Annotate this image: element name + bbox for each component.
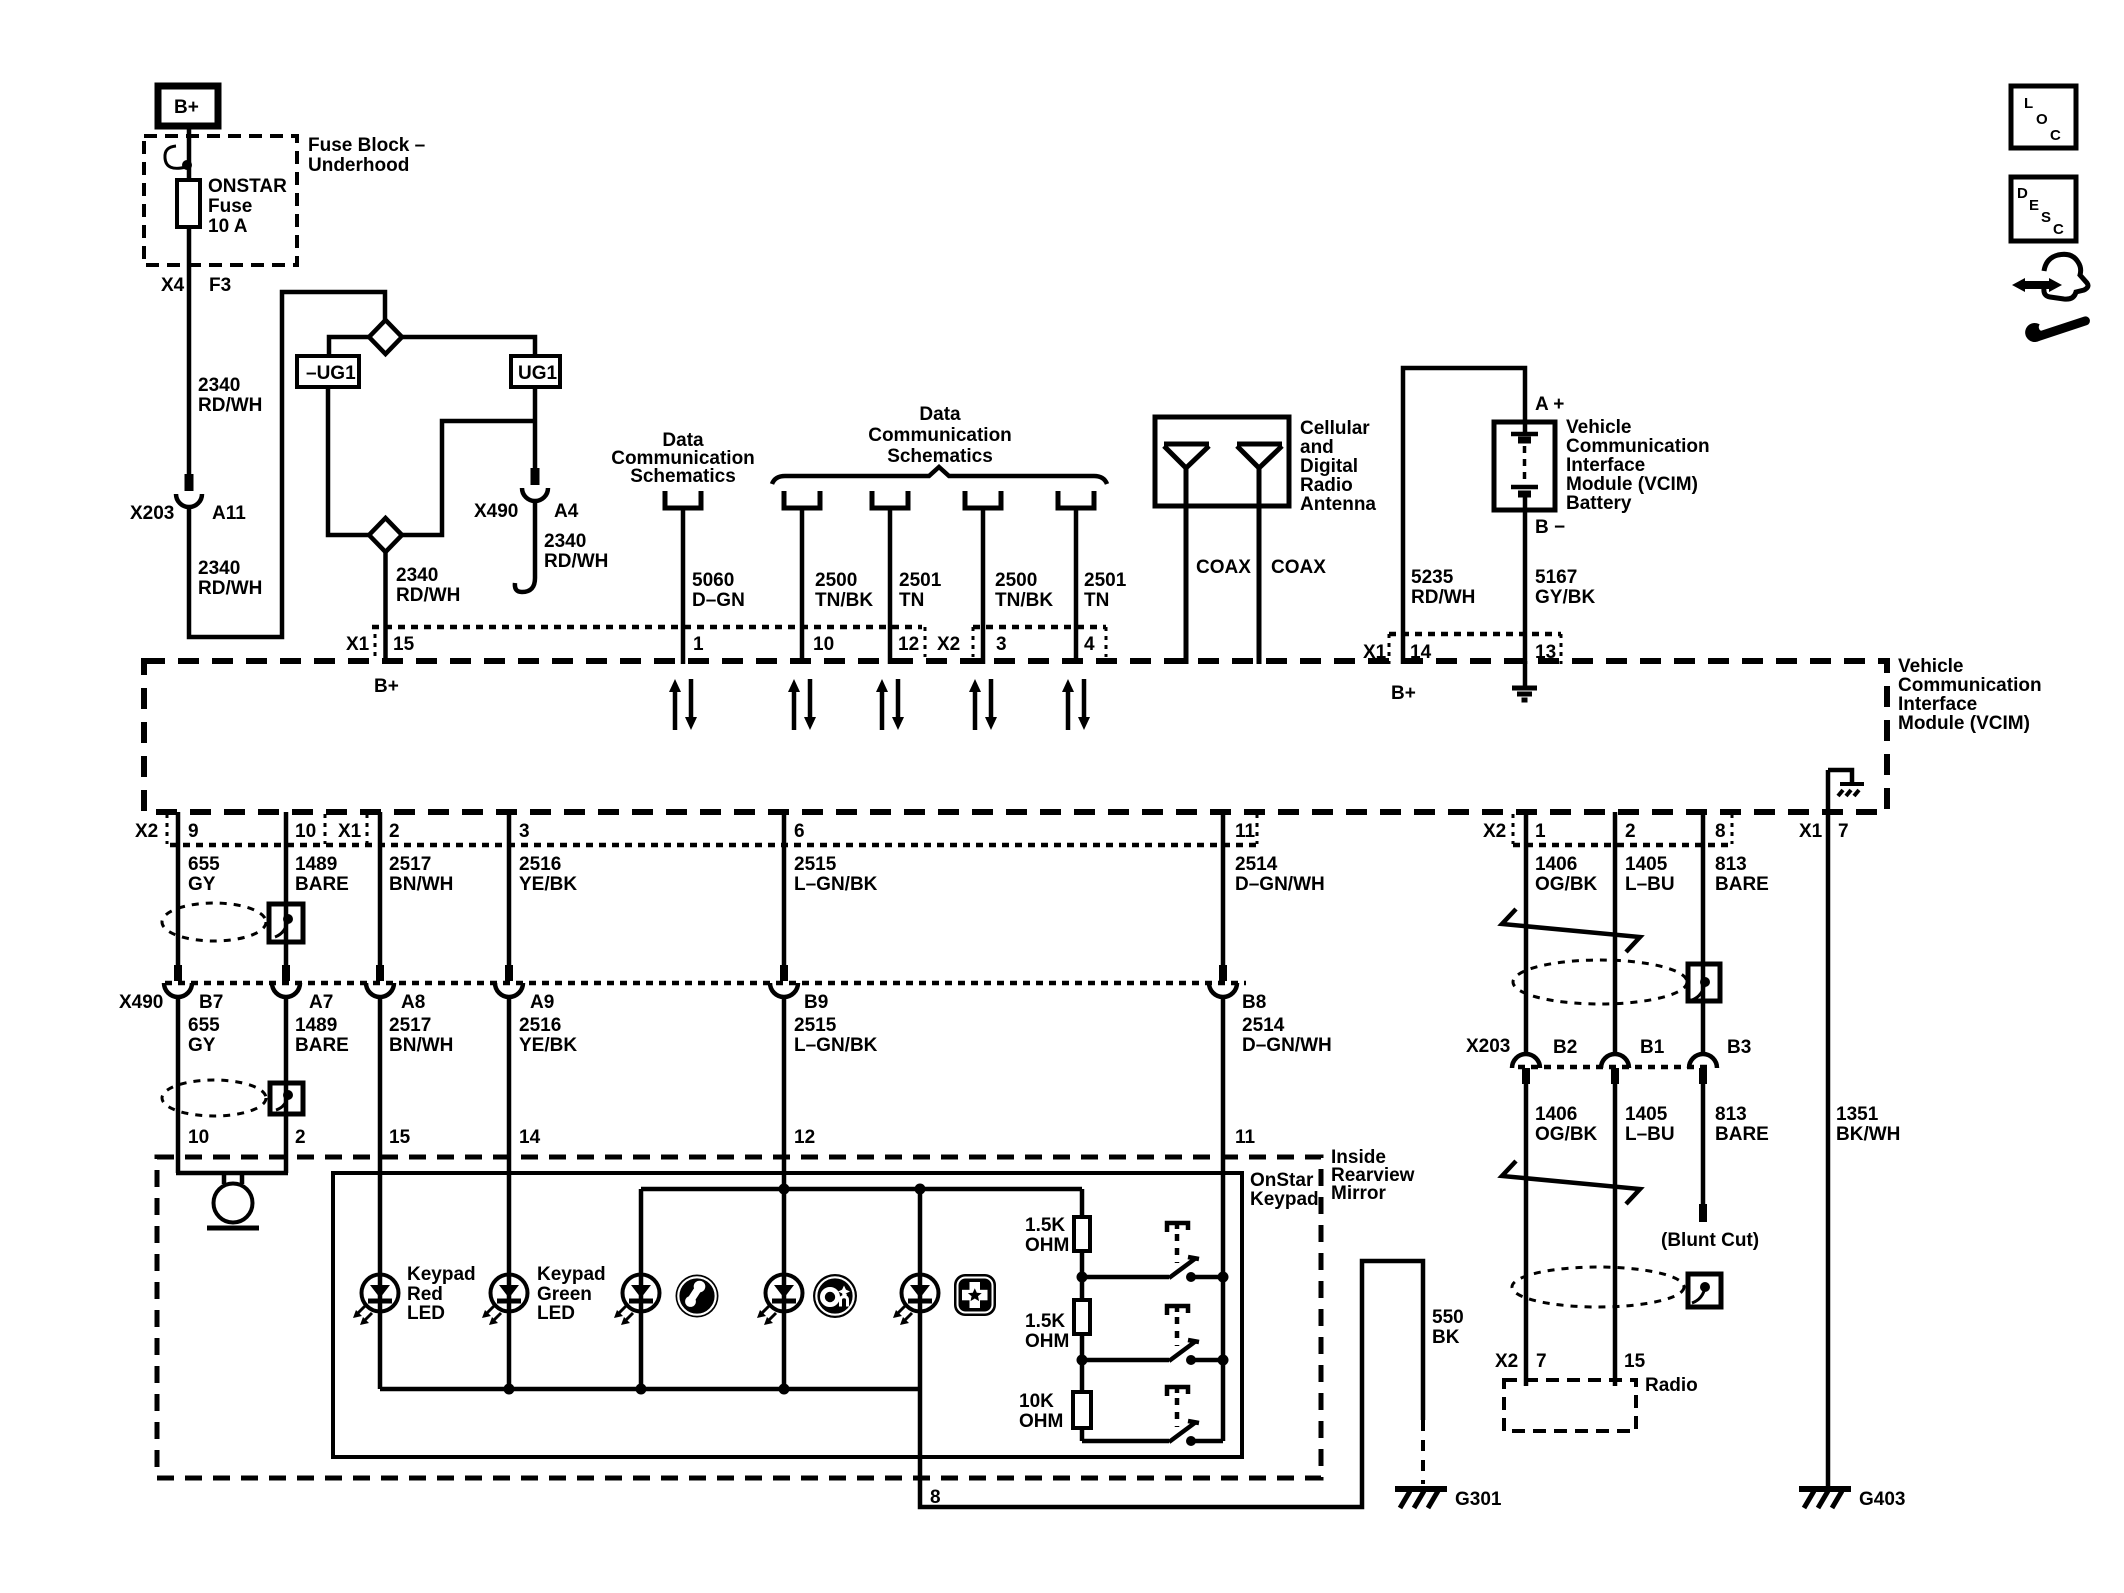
svg-text:10 A: 10 A [208,216,248,237]
X490 pin B8 [1219,965,1227,981]
coax wire 2 [1257,466,1262,664]
svg-text:Mirror: Mirror [1331,1183,1387,1204]
svg-text:7: 7 [1536,1351,1547,1372]
svg-text:813: 813 [1715,1104,1747,1125]
switch onstar (row2) [1082,1306,1223,1365]
svg-text:12: 12 [794,1127,815,1148]
node B+ (battery feed) [158,86,218,126]
svg-text:GY: GY [188,1035,216,1056]
svg-text:OG/BK: OG/BK [1535,874,1598,895]
svg-text:A11: A11 [212,503,246,524]
svg-text:LED: LED [407,1303,445,1324]
svg-text:L–BU: L–BU [1625,874,1675,895]
phone button icon [676,1275,719,1318]
VCIM battery box [1494,422,1555,510]
DESC legend box [2011,177,2076,241]
off-page connector wire 2501 [872,491,908,508]
anode bus wire [641,1187,1082,1192]
svg-text:UG1: UG1 [518,363,558,384]
bidirectional arrows pin 12 [876,679,904,730]
svg-text:B2: B2 [1553,1037,1577,1058]
svg-text:11: 11 [1235,1127,1256,1148]
svg-text:5167: 5167 [1535,567,1577,588]
svg-text:D–GN/WH: D–GN/WH [1242,1035,1332,1056]
junction LED5/bus [915,1184,926,1195]
svg-text:RD/WH: RD/WH [198,395,262,416]
svg-text:Radio: Radio [1300,475,1353,496]
svg-text:1.5K: 1.5K [1025,1215,1065,1236]
LOC legend box [2011,86,2076,148]
svg-text:655: 655 [188,854,220,875]
X203 pin B1 [1611,1068,1619,1084]
wire 550 BK to G301 [1421,1420,1425,1484]
svg-text:BARE: BARE [1715,1124,1769,1145]
connector X490 pin A4 [522,488,548,501]
wire 2514 D-GN/WH (lower) [1221,995,1226,1441]
svg-text:Keypad: Keypad [537,1264,606,1285]
svg-text:1: 1 [1535,821,1546,842]
svg-text:OG/BK: OG/BK [1535,1124,1598,1145]
svg-text:G301: G301 [1455,1489,1502,1510]
svg-text:RD/WH: RD/WH [1411,587,1475,608]
wire 2514 D-GN/WH (upper) [1221,812,1226,968]
svg-text:Vehicle: Vehicle [1898,656,1964,677]
svg-text:S: S [2041,209,2051,226]
wire 2516 YE/BK (upper) [507,812,512,968]
svg-text:D–GN: D–GN [692,590,745,611]
wire 2515 L-GN/BK (lower) [782,995,787,1275]
wire 2340 RD/WH pigtail [515,499,535,592]
phone call LED [614,1275,660,1326]
svg-text:2517: 2517 [389,1015,431,1036]
switch phone (row1) [1082,1223,1223,1282]
microphone [176,1173,288,1184]
wire 813 BARE (upper) [1701,812,1706,1054]
svg-text:BARE: BARE [295,1035,349,1056]
inside rearview mirror dashed box [157,1157,1321,1478]
wire bus to LED3 [639,1189,644,1275]
splice diamond upper [369,320,402,354]
wire 813 BARE (lower, blunt cut) [1701,1084,1706,1206]
wire 5060 D-GN to VCIM pin 1 [681,510,686,664]
svg-text:Communication: Communication [868,425,1012,446]
wire 1489 BARE (upper) [284,812,289,968]
svg-text:1406: 1406 [1535,1104,1577,1125]
shield wrap ellipse upper [162,903,266,941]
svg-text:Underhood: Underhood [308,155,409,176]
svg-text:X1: X1 [338,821,362,842]
battery cell symbol [1511,424,1538,434]
ground G301 [1395,1489,1447,1508]
wire R1 to row1 [1080,1251,1085,1300]
svg-text:1.5K: 1.5K [1025,1311,1065,1332]
shield wrap ellipse right upper [1513,960,1687,1004]
X490 pin A8 [376,965,384,981]
wire 1406 OG/BK (upper) [1524,812,1529,1054]
fusible link UG1 [511,356,560,387]
svg-text:1406: 1406 [1535,854,1577,875]
svg-text:2340: 2340 [198,558,240,579]
svg-text:1405: 1405 [1625,1104,1668,1125]
svg-text:2: 2 [1625,821,1636,842]
bidirectional arrows pin 1 [669,679,697,730]
internal ground at pin 13 [1523,661,1528,686]
svg-text:Keypad: Keypad [1250,1189,1319,1210]
svg-text:B −: B − [1535,517,1565,538]
svg-text:(Blunt Cut): (Blunt Cut) [1661,1230,1759,1251]
svg-text:2515: 2515 [794,1015,837,1036]
switch emergency (row3) [1082,1387,1223,1446]
svg-text:13: 13 [1535,642,1556,663]
pin dotted row under VCIM [170,843,1257,848]
crossover marker lower [1502,1161,1640,1204]
svg-text:E: E [2029,197,2039,214]
wire 655 GY (upper) [176,812,181,968]
wire 1406 OG/BK (lower) [1524,1084,1529,1386]
svg-text:TN: TN [1084,590,1109,611]
svg-text:2514: 2514 [1235,854,1278,875]
crossover marker upper [1502,909,1640,952]
fuse F3 ONSTAR 10 A [177,180,200,227]
svg-text:X2: X2 [1495,1351,1518,1372]
svg-text:LED: LED [537,1303,575,1324]
svg-text:12: 12 [898,634,919,655]
drain splice box right upper [1688,964,1720,1001]
emergency LED [893,1275,939,1326]
svg-text:OHM: OHM [1019,1411,1063,1432]
wire keypad pin 8 to ground run [920,1261,1423,1507]
svg-text:L–BU: L–BU [1625,1124,1675,1145]
svg-text:L–GN/BK: L–GN/BK [794,874,878,895]
svg-text:10: 10 [295,821,316,842]
antenna element 2 [1237,444,1282,468]
svg-text:655: 655 [188,1015,220,1036]
wire 2517 BN/WH (upper) [378,812,383,968]
svg-text:2: 2 [389,821,400,842]
svg-text:1489: 1489 [295,1015,337,1036]
resistor R2 1.5K OHM [1074,1300,1090,1334]
svg-text:A +: A + [1535,394,1564,415]
X203 pin B2 [1522,1068,1530,1084]
svg-text:TN: TN [899,590,924,611]
svg-text:2515: 2515 [794,854,837,875]
resistor bus [1080,1189,1085,1217]
svg-text:COAX: COAX [1196,557,1251,578]
svg-text:A4: A4 [554,501,579,522]
svg-text:O: O [2036,111,2048,128]
svg-text:2340: 2340 [198,375,240,396]
svg-text:D–GN/WH: D–GN/WH [1235,874,1325,895]
svg-text:5060: 5060 [692,570,734,591]
svg-text:RD/WH: RD/WH [544,551,608,572]
svg-text:X2: X2 [937,634,960,655]
svg-text:10: 10 [188,1127,209,1148]
svg-text:Keypad: Keypad [407,1264,476,1285]
svg-text:3: 3 [996,634,1007,655]
svg-text:L–GN/BK: L–GN/BK [794,1035,878,1056]
svg-text:A7: A7 [309,992,333,1013]
wire 2340 RD/WH from A11 around to splice [189,292,385,637]
wire 2516 YE/BK (lower) [507,995,512,1275]
svg-text:Interface: Interface [1566,455,1645,476]
svg-text:BARE: BARE [295,874,349,895]
ground G403 [1799,1489,1851,1508]
svg-text:5235: 5235 [1411,567,1454,588]
svg-text:X203: X203 [1466,1036,1510,1057]
keypad red LED [353,1275,399,1326]
svg-text:TN/BK: TN/BK [995,590,1053,611]
onstar LED [757,1275,803,1326]
wire 5235 RD/WH B+ loop to battery A+ [1403,368,1525,664]
off-page connector wire 5060 [665,491,701,508]
wire 1351 BK/WH internal ground [1828,770,1852,782]
svg-text:ONSTAR: ONSTAR [208,176,287,197]
wire bus to LED5 [918,1189,923,1275]
svg-text:YE/BK: YE/BK [519,874,577,895]
emergency button icon [954,1274,996,1316]
svg-text:Red: Red [407,1284,443,1305]
svg-text:6: 6 [794,821,805,842]
svg-text:C: C [2050,127,2061,144]
brace over data wires [772,467,1107,484]
svg-text:2500: 2500 [815,570,857,591]
svg-text:Module (VCIM): Module (VCIM) [1898,713,2030,734]
wire 2501 TN to VCIM pin 4 [1074,510,1079,664]
connector X490 row [165,981,1246,986]
shield wrap ellipse lower [162,1080,266,1116]
svg-text:–UG1: –UG1 [306,363,356,384]
wire 2500 TN/BK to VCIM pin 3 [981,510,986,664]
wire B+ to fuse [187,126,192,180]
splice diamond lower [369,518,402,552]
svg-text:YE/BK: YE/BK [519,1035,577,1056]
svg-text:2340: 2340 [396,565,438,586]
wire splice to UG1 [402,337,535,356]
svg-text:2516: 2516 [519,1015,561,1036]
junction LED2 [504,1384,515,1395]
svg-text:8: 8 [1715,821,1726,842]
cathode bus wire [380,1387,920,1392]
svg-text:GY/BK: GY/BK [1535,587,1595,608]
svg-text:Cellular: Cellular [1300,418,1370,439]
svg-text:OHM: OHM [1025,1331,1069,1352]
svg-text:B8: B8 [1242,992,1266,1013]
svg-text:15: 15 [389,1127,411,1148]
svg-text:A8: A8 [401,992,425,1013]
svg-text:Schematics: Schematics [887,446,993,467]
antenna element 1 [1164,444,1209,468]
svg-text:BN/WH: BN/WH [389,874,453,895]
wire UG1 branch junction [533,387,538,421]
svg-text:1405: 1405 [1625,854,1668,875]
svg-text:Fuse: Fuse [208,196,252,217]
bidirectional arrows pin 3 [969,679,997,730]
svg-text:14: 14 [1410,642,1432,663]
svg-text:COAX: COAX [1271,557,1326,578]
wire 2517 BN/WH (lower) [378,995,383,1275]
wire 2340 RD/WH splice to VCIM pin 15 [383,552,388,664]
svg-text:A9: A9 [530,992,554,1013]
svg-text:Communication: Communication [1566,436,1710,457]
svg-text:BARE: BARE [1715,874,1769,895]
svg-text:8: 8 [930,1487,941,1508]
svg-text:X203: X203 [130,503,174,524]
svg-text:Data: Data [919,404,961,425]
svg-text:and: and [1300,437,1334,458]
off-page connector wire 2500b [965,491,1001,508]
svg-text:GY: GY [188,874,216,895]
svg-text:Module (VCIM): Module (VCIM) [1566,474,1698,495]
bidirectional arrows pin 10 [788,679,816,730]
svg-text:2500: 2500 [995,570,1037,591]
svg-text:4: 4 [1084,634,1095,655]
svg-text:2501: 2501 [899,570,942,591]
svg-text:2: 2 [295,1127,306,1148]
svg-text:X490: X490 [474,501,518,522]
svg-text:X1: X1 [1363,642,1387,663]
wire 1405 L-BU (upper) [1613,812,1618,1054]
svg-text:X4: X4 [161,275,185,296]
svg-text:B9: B9 [804,992,828,1013]
fusible link -UG1 [297,356,359,387]
svg-text:10K: 10K [1019,1391,1054,1412]
svg-text:1351: 1351 [1836,1104,1879,1125]
junction LED4 [779,1384,790,1395]
off-page connector wire 2500 [784,491,820,508]
svg-text:Antenna: Antenna [1300,494,1376,515]
svg-text:OHM: OHM [1025,1235,1069,1256]
svg-text:Battery: Battery [1566,493,1632,514]
junction 2515/bus [779,1184,790,1195]
svg-text:Green: Green [537,1284,592,1305]
svg-text:BK/WH: BK/WH [1836,1124,1900,1145]
drain splice box right lower [1688,1274,1721,1307]
svg-text:B+: B+ [374,676,399,697]
svg-text:Communication: Communication [1898,675,2042,696]
svg-text:7: 7 [1838,821,1849,842]
drain splice box upper [269,904,303,942]
onstar button icon [813,1274,857,1318]
connector row X1/X2 top of VCIM [372,625,922,630]
wire 2500 TN/BK to VCIM pin 10 [800,510,805,664]
X490 pin A9 [505,965,513,981]
wire 1351 BK/WH to G403 [1826,770,1831,1486]
wire -UG1 to lower splice [328,387,369,535]
keypad green LED [482,1275,528,1326]
wire 1405 L-BU (lower) [1613,1084,1618,1386]
svg-text:X2: X2 [135,821,158,842]
connector X203 row [1518,1065,1712,1070]
onstar keypad box [333,1173,1242,1457]
wire R2 to row2 [1080,1334,1085,1392]
fuse block internal connector curl [165,146,186,168]
wire UG1 to X490 A4 [533,421,538,470]
bidirectional arrows pin 4 [1062,679,1090,730]
cellular and digital radio antenna box [1155,417,1289,506]
wire R3 to row3 [1080,1428,1085,1441]
legend icon glove arrow wrench [2012,254,2088,343]
X490 pin B7 [174,965,182,981]
svg-text:9: 9 [188,821,199,842]
svg-text:2517: 2517 [389,854,431,875]
svg-text:X2: X2 [1483,821,1506,842]
drain splice box lower [270,1083,303,1114]
wire 2340 RD/WH fuse to X203 [187,227,192,474]
wire 2515 L-GN/BK (upper) [782,812,787,968]
svg-text:2340: 2340 [544,531,586,552]
svg-text:2514: 2514 [1242,1015,1285,1036]
svg-text:B1: B1 [1640,1037,1665,1058]
resistor R3 10K OHM [1073,1392,1091,1428]
svg-text:15: 15 [1624,1351,1646,1372]
wire splice to -UG1 [329,337,369,356]
wire 2501 TN to VCIM pin 12 [888,510,893,664]
coax wire 1 [1184,466,1189,664]
svg-text:2516: 2516 [519,854,561,875]
svg-text:RD/WH: RD/WH [198,578,262,599]
resistor R1 1.5K OHM [1074,1217,1090,1251]
wire branch to lower splice [402,421,535,535]
LED through-wires [380,1275,920,1389]
svg-text:X490: X490 [119,992,163,1013]
svg-text:D: D [2017,185,2028,202]
svg-text:1489: 1489 [295,854,337,875]
svg-text:14: 14 [519,1127,541,1148]
X490 pin A7 [282,965,290,981]
radio dashed box [1504,1380,1636,1431]
wire 5167 GY/BK battery to VCIM pin 13 [1523,510,1528,664]
svg-text:Vehicle: Vehicle [1566,417,1632,438]
svg-text:G403: G403 [1859,1489,1905,1510]
svg-text:BK: BK [1432,1327,1460,1348]
svg-text:1: 1 [693,634,704,655]
svg-text:B7: B7 [199,992,223,1013]
svg-text:OnStar: OnStar [1250,1170,1314,1191]
svg-text:Digital: Digital [1300,456,1358,477]
svg-text:550: 550 [1432,1307,1464,1328]
svg-text:B+: B+ [1391,683,1416,704]
svg-text:X1: X1 [346,634,370,655]
svg-text:Interface: Interface [1898,694,1977,715]
svg-text:X1: X1 [1799,821,1823,842]
svg-text:L: L [2024,95,2033,112]
svg-text:TN/BK: TN/BK [815,590,873,611]
svg-text:Radio: Radio [1645,1375,1698,1396]
X490 pin B9 [780,965,788,981]
svg-text:11: 11 [1235,821,1256,842]
svg-text:Fuse Block –: Fuse Block – [308,135,425,156]
wire 655 GY (lower) [176,995,181,1173]
fuse block - underhood dashed box [144,136,297,265]
svg-text:RD/WH: RD/WH [396,585,460,606]
VCIM module dashed box [144,661,1887,812]
connector row X1 14/13 [1389,632,1561,637]
svg-text:813: 813 [1715,854,1747,875]
wire 1489 BARE (lower) [284,995,289,1173]
svg-text:B+: B+ [174,97,199,118]
connector X203 pin A11 [185,474,194,491]
X203 pin B3 [1699,1068,1707,1084]
svg-text:15: 15 [393,634,415,655]
svg-text:BN/WH: BN/WH [389,1035,453,1056]
shield wrap ellipse right lower [1512,1267,1684,1307]
svg-text:2501: 2501 [1084,570,1127,591]
svg-text:F3: F3 [209,275,231,296]
off-page connector wire 2501b [1058,491,1094,508]
svg-text:3: 3 [519,821,530,842]
junction LED3 [636,1384,647,1395]
svg-text:Schematics: Schematics [630,466,736,487]
